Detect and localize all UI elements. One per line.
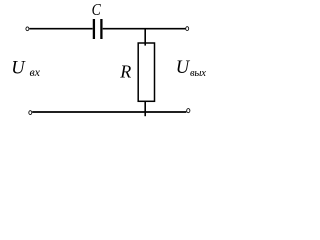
wire: top-left terminal to capacitor (29, 28, 92, 30)
wire: resistor top stub (144, 29, 146, 46)
svg-text:Uвых: Uвых (176, 58, 206, 79)
svg-text:R: R (119, 61, 131, 81)
resistor R (138, 43, 154, 101)
wire: resistor bottom stub (144, 101, 146, 116)
bottom wire (32, 111, 186, 113)
svg-text:Uвх: Uвх (11, 59, 40, 79)
wire: capacitor to top-right terminal (103, 28, 186, 30)
output terminal bottom-right (187, 109, 190, 113)
input terminal top-left (26, 27, 29, 31)
capacitor C (94, 19, 102, 39)
svg-text:C: C (92, 0, 102, 19)
output terminal top-right (186, 27, 189, 31)
input terminal bottom-left (29, 111, 32, 115)
